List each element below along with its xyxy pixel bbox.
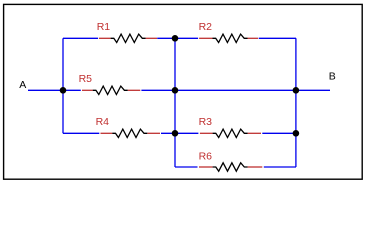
- svg-text:R6: R6: [199, 151, 213, 163]
- svg-text:B: B: [329, 71, 336, 83]
- svg-text:R1: R1: [97, 21, 111, 33]
- svg-text:R5: R5: [79, 73, 93, 85]
- svg-text:R2: R2: [199, 21, 213, 33]
- svg-text:A: A: [19, 79, 26, 91]
- svg-text:R3: R3: [199, 116, 213, 128]
- svg-text:R4: R4: [96, 116, 110, 128]
